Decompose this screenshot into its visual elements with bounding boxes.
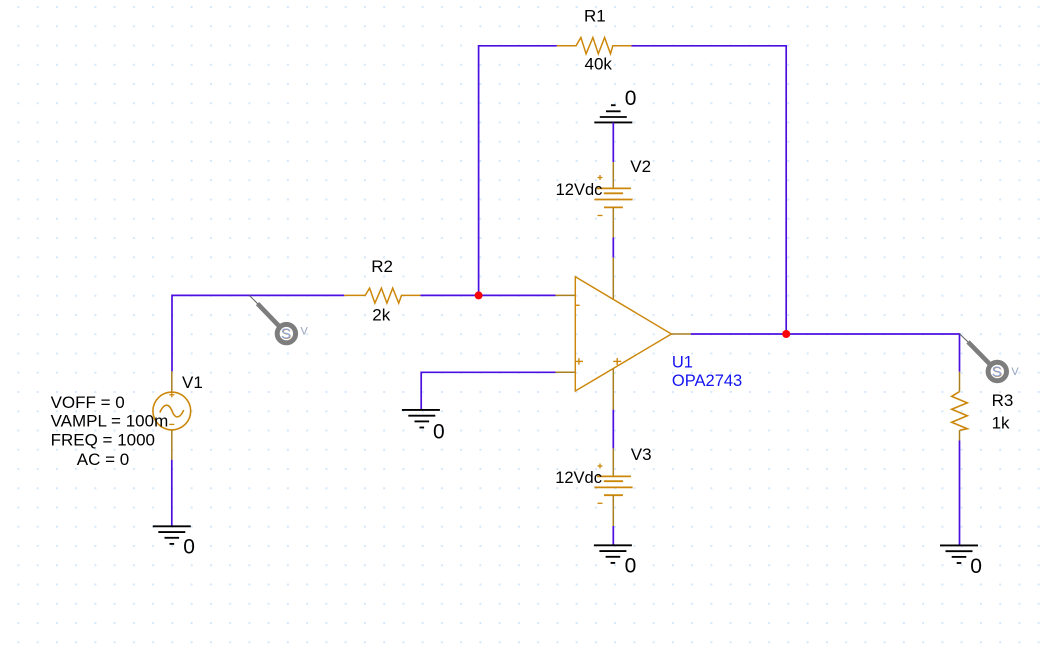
svg-text:0: 0	[625, 554, 637, 577]
pin opamp non-inverting input	[556, 371, 576, 373]
wire V2 to opamp V+ pin	[612, 238, 614, 258]
ground R3	[940, 545, 978, 563]
ground V3	[594, 545, 632, 563]
svg-text:V3: V3	[631, 445, 652, 464]
svg-text:FREQ = 1000: FREQ = 1000	[51, 430, 155, 449]
op-amp U1	[575, 277, 671, 391]
svg-text:40k: 40k	[585, 55, 613, 74]
svg-text:0: 0	[625, 87, 637, 110]
wire V1 to ground	[171, 460, 173, 527]
wire opamp V- to V3	[612, 410, 614, 449]
svg-text:VAMPL = 100m: VAMPL = 100m	[51, 412, 169, 431]
resistor R2	[344, 288, 420, 303]
svg-text:S: S	[992, 364, 1002, 381]
pin opamp inverting input	[556, 294, 576, 296]
ground top (flipped)	[594, 105, 632, 122]
junction node output	[782, 330, 790, 338]
wire non-inverting to ground	[421, 372, 555, 409]
svg-text:V2: V2	[630, 157, 651, 176]
svg-text:U1: U1	[672, 354, 693, 372]
svg-text:V: V	[1011, 366, 1019, 378]
wire feedback top-right segment	[632, 46, 787, 334]
svg-text:R1: R1	[584, 7, 606, 26]
ground V1	[153, 526, 191, 544]
svg-text:1k: 1k	[992, 414, 1010, 433]
svg-text:R2: R2	[371, 257, 393, 276]
wire V3 to ground	[612, 526, 614, 545]
source V3 12Vdc battery	[594, 448, 632, 526]
svg-text:0: 0	[433, 420, 445, 443]
wire ground-top to V2	[612, 122, 614, 162]
svg-text:R3: R3	[992, 391, 1014, 410]
svg-text:OPA2743: OPA2743	[672, 372, 742, 390]
probe marker V output	[960, 334, 1020, 381]
wire R2 to opamp inverting input	[421, 294, 556, 296]
svg-text:0: 0	[183, 536, 195, 559]
svg-text:AC = 0: AC = 0	[77, 450, 129, 469]
ground mid (non-inverting)	[402, 410, 440, 428]
svg-text:12Vdc: 12Vdc	[556, 181, 603, 199]
resistor R1	[557, 38, 632, 54]
svg-text:2k: 2k	[372, 306, 390, 325]
wire R3 to ground	[959, 441, 961, 546]
wire V1 to R2	[172, 295, 344, 371]
wire feedback top-left segment	[479, 46, 557, 296]
svg-text:0: 0	[970, 555, 982, 578]
pin opamp top supply	[612, 258, 614, 300]
probe marker V input	[249, 295, 308, 343]
svg-text:12Vdc: 12Vdc	[555, 469, 602, 487]
svg-text:VOFF = 0: VOFF = 0	[51, 393, 125, 412]
source V1 sine	[153, 371, 191, 459]
svg-text:V1: V1	[182, 373, 203, 392]
source V2 12Vdc battery	[594, 162, 632, 237]
svg-text:V: V	[301, 326, 309, 338]
resistor R3	[952, 372, 968, 441]
pin opamp output	[671, 333, 690, 335]
junction node inverting input	[475, 291, 483, 299]
svg-text:S: S	[281, 326, 291, 343]
pin opamp bottom supply	[612, 369, 614, 410]
wire output to R3	[691, 334, 960, 372]
